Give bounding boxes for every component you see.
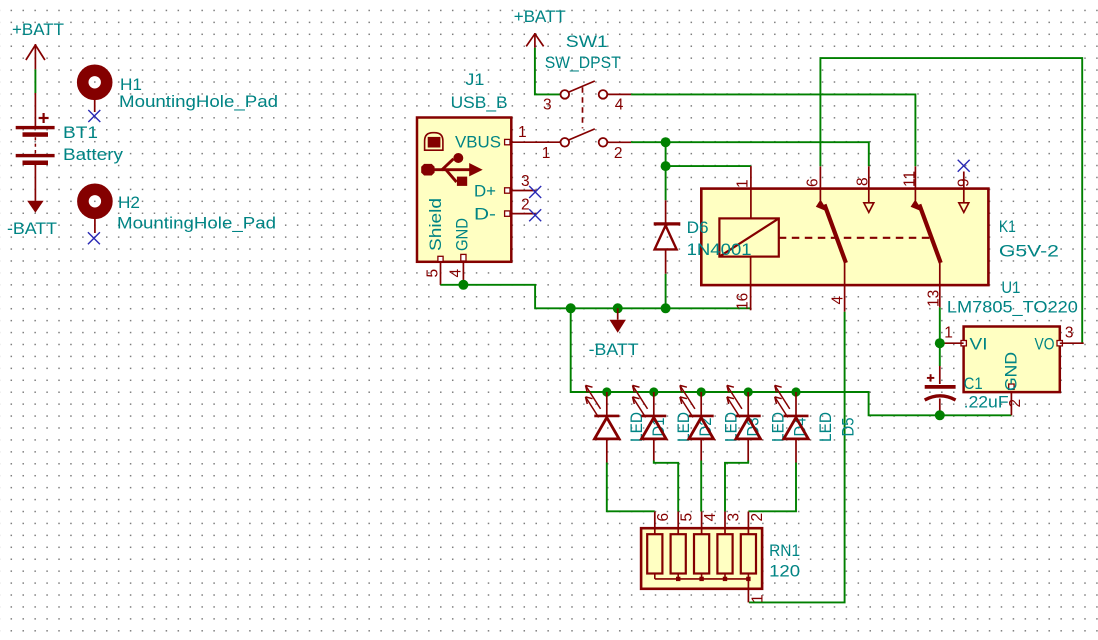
power flag -BATT (left) (7, 201, 57, 238)
U1 pin 3 VO (1035, 325, 1084, 354)
svg-text:VBUS: VBUS (455, 134, 501, 152)
relay pin 1 (735, 166, 752, 218)
SW1 contact 1 (542, 138, 569, 162)
wire relay pin13 down (939, 307, 941, 343)
svg-text:1: 1 (735, 179, 752, 188)
svg-text:-BATT: -BATT (589, 341, 639, 359)
svg-text:120: 120 (769, 563, 800, 581)
svg-text:SW1: SW1 (566, 33, 608, 51)
no-connect X on D- (529, 209, 541, 221)
RN1 resistor element pin 5 (671, 512, 696, 574)
svg-text:6: 6 (655, 513, 672, 522)
LED D1 (586, 385, 620, 462)
svg-text:4: 4 (447, 269, 464, 278)
power flag +BATT (left) (12, 21, 64, 69)
svg-text:U1: U1 (1001, 279, 1020, 297)
svg-text:1: 1 (750, 594, 767, 603)
power flag -BATT (middle) (589, 308, 639, 359)
svg-text:J1: J1 (465, 71, 484, 89)
wire relay pin4 to RN1 pin1 (749, 312, 845, 603)
capacitor C1 (925, 366, 956, 415)
wire LED D1 to RN1 (607, 463, 655, 512)
junction -BATT rail left (566, 303, 576, 313)
svg-text:1: 1 (944, 325, 953, 342)
svg-text:Shield: Shield (427, 198, 445, 251)
relay pin 9 NO contact (956, 172, 973, 213)
relay pin 11 (902, 166, 919, 200)
svg-text:1: 1 (542, 145, 551, 162)
junction above LED D2 (649, 387, 658, 396)
svg-text:LED: LED (817, 412, 835, 442)
svg-text:1: 1 (518, 124, 527, 141)
wire +BATT to BT1 (34, 69, 36, 93)
RN1 common bus (655, 574, 751, 582)
LED D2 (633, 385, 667, 460)
LED D5 (775, 385, 809, 462)
relay arm pole 1 (816, 200, 846, 263)
svg-text:USB_B: USB_B (451, 94, 508, 112)
svg-text:+BATT: +BATT (514, 8, 566, 26)
relay pin 8 NO contact (855, 166, 874, 212)
svg-text:Battery: Battery (63, 146, 124, 164)
battery BT1 (16, 93, 55, 201)
svg-text:13: 13 (926, 290, 943, 307)
svg-text:D-: D- (474, 205, 496, 223)
svg-text:2: 2 (521, 196, 530, 213)
relay K1 G5V-2 body (701, 189, 988, 286)
J1 pin 3 D+ (474, 173, 536, 200)
J1 pin 4 GND (447, 218, 471, 285)
svg-text:11: 11 (902, 171, 919, 187)
svg-text:3: 3 (543, 97, 552, 114)
junction at relay coil feed (661, 161, 671, 171)
SW1 lever pole A (569, 81, 595, 92)
wire LED D3 to RN1 (700, 461, 702, 512)
U1 pin 2 GND (1003, 352, 1024, 415)
no-connect X on H1 (88, 110, 100, 122)
svg-text:RN1: RN1 (769, 542, 800, 560)
SW1 lever pole B (569, 129, 595, 140)
relay pin 16 (735, 257, 752, 311)
svg-text:2: 2 (749, 513, 766, 522)
power flag +BATT (top) (514, 8, 566, 48)
SW1 contact 3 (543, 90, 569, 113)
LED D3 (680, 385, 714, 460)
relay coil (719, 218, 778, 256)
svg-text:.22uF: .22uF (964, 394, 1009, 412)
junction under J1 (458, 280, 468, 290)
svg-text:-BATT: -BATT (7, 220, 57, 238)
svg-text:+BATT: +BATT (12, 21, 64, 39)
svg-text:K1: K1 (999, 218, 1016, 236)
svg-text:H1: H1 (120, 76, 142, 94)
SW1 contact 2 (599, 138, 631, 162)
junction above LED D3 (697, 387, 706, 396)
svg-text:4: 4 (702, 513, 719, 522)
junction -BATT rail right (661, 303, 671, 313)
SW1 mechanical link (dashed) (582, 87, 584, 128)
svg-text:SW_DPST: SW_DPST (545, 54, 621, 72)
USB icon (421, 133, 483, 186)
junction above LED D1 (602, 387, 611, 396)
svg-text:4: 4 (615, 97, 624, 114)
J1 pin 1 VBUS (455, 124, 560, 152)
junction above LED D5 (791, 387, 800, 396)
wire J1 ground to -BATT rail (463, 285, 750, 309)
no-connect X on relay pin 9 (958, 160, 970, 172)
svg-text:H2: H2 (118, 194, 140, 212)
svg-text:D+: D+ (474, 182, 496, 200)
mounting hole H1 (83, 70, 107, 112)
svg-text:8: 8 (855, 177, 872, 186)
wire to relay pin 1 (666, 165, 751, 167)
RN1 resistor element pin 4 (694, 512, 719, 574)
U1 pin 1 VI (940, 325, 988, 354)
svg-text:G5V-2: G5V-2 (999, 243, 1059, 261)
mounting hole H2 (83, 189, 107, 233)
J1 pin 5 Shield (424, 198, 445, 285)
svg-text:GND: GND (453, 218, 471, 251)
svg-text:BT1: BT1 (63, 124, 98, 142)
regulator U1 body (964, 327, 1060, 393)
wire to capacitor C1 (939, 343, 941, 366)
wire SW1 pin2 to relay pin8 (631, 142, 869, 166)
wire D6 branch down (665, 142, 667, 200)
RN1 resistor element pin 3 (717, 512, 742, 574)
LED D4 (727, 385, 761, 460)
wire SW1 pin4 to relay pin11 (631, 94, 915, 166)
wire -BATT rail to LED row (571, 308, 1012, 415)
RN1 pin 1 (748, 579, 766, 603)
relay pin 6 (805, 166, 822, 200)
no-connect X on H2 (88, 232, 100, 244)
wire LED D5 to RN1 (748, 463, 796, 512)
wire +BATT to SW1 pin3 (535, 48, 561, 95)
relay arm pole 2 (911, 200, 941, 263)
svg-text:5: 5 (679, 513, 696, 522)
J1 pin 2 D- (474, 196, 536, 223)
connector J1 USB_B body (417, 118, 511, 262)
junction at D6 top (661, 137, 671, 147)
svg-text:16: 16 (735, 293, 752, 310)
svg-text:2: 2 (1007, 399, 1024, 408)
svg-text:2: 2 (614, 145, 623, 162)
svg-text:VO: VO (1035, 336, 1055, 354)
svg-text:D6: D6 (687, 219, 709, 237)
svg-text:GND: GND (1003, 352, 1021, 391)
no-connect X on D+ (529, 186, 541, 198)
junction above LED D4 (744, 387, 753, 396)
relay pin 4 (830, 263, 847, 312)
svg-text:C1: C1 (964, 375, 983, 393)
relay pin 13 (926, 263, 943, 308)
junction -BATT rail mid (613, 303, 623, 313)
diode D6 (654, 200, 681, 273)
svg-text:3: 3 (1065, 325, 1074, 342)
svg-text:MountingHole_Pad: MountingHole_Pad (119, 93, 278, 111)
svg-text:D5: D5 (839, 418, 857, 437)
junction at U1 input (935, 338, 945, 348)
resistor network RN1 body (641, 528, 762, 589)
wire J1 pin5 to junction (441, 284, 464, 286)
svg-text:6: 6 (805, 178, 822, 187)
SW1 contact 4 (599, 90, 631, 113)
RN1 resistor element pin 2 (741, 512, 766, 574)
svg-text:4: 4 (830, 296, 847, 305)
RN1 resistor element pin 6 (647, 512, 672, 574)
wire LED D2 to RN1 (654, 461, 678, 512)
svg-text:3: 3 (725, 513, 742, 522)
svg-text:1N4001: 1N4001 (687, 241, 752, 259)
switch SW1 SW_DPST (0, 0, 1, 1)
svg-text:MountingHole_Pad: MountingHole_Pad (117, 215, 276, 233)
svg-text:9: 9 (956, 178, 973, 187)
wire D6 to -BATT rail (665, 274, 667, 309)
junction below C1 (935, 410, 945, 420)
svg-text:LM7805_TO220: LM7805_TO220 (947, 299, 1078, 317)
wire LED D4 to RN1 (725, 461, 748, 512)
svg-text:3: 3 (521, 173, 530, 190)
svg-text:VI: VI (970, 336, 988, 354)
svg-text:5: 5 (424, 269, 441, 278)
wire relay pin6 to VO rail (820, 58, 1082, 343)
dashed actuator link (779, 237, 934, 239)
